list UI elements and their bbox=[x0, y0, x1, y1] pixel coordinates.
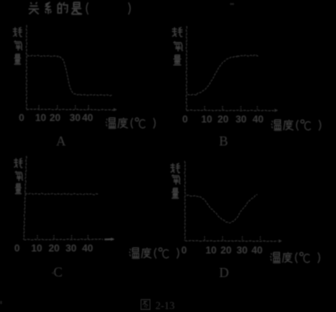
graph B ticks bbox=[205, 106, 258, 110]
svg-text:30: 30 bbox=[236, 246, 248, 257]
svg-text:0: 0 bbox=[19, 113, 25, 124]
figure caption 图 2-13 bbox=[141, 300, 150, 310]
graph A ticks bbox=[39, 105, 89, 109]
graph C y-label 耗氧量 bbox=[14, 158, 23, 168]
svg-text:10: 10 bbox=[201, 115, 213, 126]
svg-text:2-13: 2-13 bbox=[155, 301, 174, 312]
faint scan speck left edge bottom bbox=[0, 301, 2, 304]
graph D x-axis title 温度（℃） bbox=[270, 252, 280, 262]
title text 关系的是（ ） bbox=[29, 2, 40, 14]
svg-text:10: 10 bbox=[35, 113, 47, 124]
svg-text:20: 20 bbox=[49, 113, 61, 124]
faint scan speck mid-left bbox=[52, 272, 55, 274]
faint scan speck top-right bbox=[230, 3, 234, 5]
graph C x-axis bold arrow bbox=[105, 238, 114, 240]
title close paren bbox=[129, 3, 131, 15]
graph B y-axis bbox=[185, 26, 188, 110]
svg-text:C: C bbox=[53, 264, 62, 279]
graph C curve (flat horizontal line) bbox=[25, 193, 98, 194]
graph A x-axis bbox=[27, 109, 115, 110]
svg-text:D: D bbox=[219, 265, 229, 280]
svg-text:A: A bbox=[56, 133, 66, 148]
graph D x-axis bbox=[185, 240, 278, 241]
graph C y-axis (slightly skewed) bbox=[23, 156, 26, 240]
graph B curve (low flat then sigmoid rise) bbox=[188, 55, 260, 95]
graph D x-axis arrow bbox=[279, 239, 282, 242]
graph B x-axis arrow bbox=[275, 109, 278, 112]
graph A x-axis title 温度（℃） bbox=[106, 118, 116, 128]
title open paren bbox=[86, 3, 88, 15]
graph B y-label 耗氧量 bbox=[172, 27, 183, 37]
graph D curve (dip to minimum then rise) bbox=[187, 195, 258, 223]
svg-text:30: 30 bbox=[235, 115, 247, 126]
svg-text:10: 10 bbox=[31, 244, 43, 255]
graph D y-label 耗氧量 bbox=[170, 163, 180, 173]
graph A y-label 耗氧量 bbox=[13, 27, 22, 37]
svg-text:40: 40 bbox=[251, 246, 263, 257]
svg-text:20: 20 bbox=[217, 115, 229, 126]
svg-text:0: 0 bbox=[181, 246, 187, 257]
svg-text:10: 10 bbox=[205, 246, 217, 257]
graph A y-axis bbox=[25, 25, 28, 110]
svg-text:40: 40 bbox=[252, 115, 264, 126]
graph A x-axis arrow bbox=[114, 108, 117, 111]
svg-text:20: 20 bbox=[220, 246, 232, 257]
svg-text:0: 0 bbox=[182, 115, 188, 126]
svg-text:40: 40 bbox=[82, 244, 94, 255]
svg-text:30: 30 bbox=[65, 244, 77, 255]
graph C x-axis bbox=[24, 238, 103, 241]
svg-text:40: 40 bbox=[82, 113, 94, 124]
svg-text:0: 0 bbox=[14, 244, 20, 255]
graph D ticks bbox=[205, 236, 261, 240]
graph B x-axis bbox=[187, 110, 275, 111]
graph C ticks bbox=[37, 235, 88, 239]
graph D y-axis bbox=[184, 161, 187, 241]
graph B x-axis title 温度（℃） bbox=[271, 120, 281, 130]
graph C x-axis title 温度（℃） bbox=[129, 248, 139, 258]
svg-text:20: 20 bbox=[48, 244, 60, 255]
svg-text:30: 30 bbox=[69, 113, 81, 124]
svg-text:B: B bbox=[219, 133, 228, 148]
graph A curve (high flat then sigmoid drop) bbox=[27, 55, 112, 95]
